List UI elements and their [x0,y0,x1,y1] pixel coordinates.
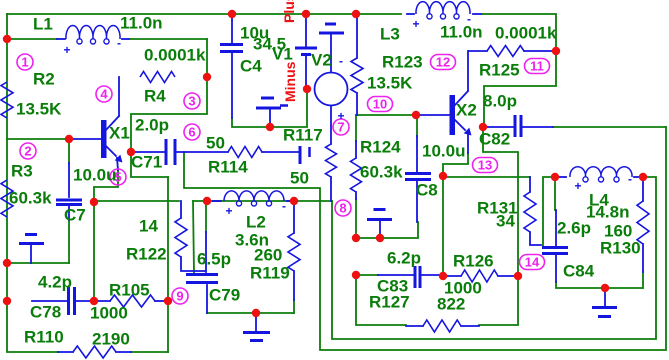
svg-text:R4: R4 [144,87,166,106]
svg-text:R124: R124 [360,138,401,157]
svg-text:L3: L3 [380,25,400,44]
svg-text:0.0001k: 0.0001k [495,24,557,43]
svg-text:R127: R127 [369,293,410,312]
svg-text:Minus: Minus [282,61,298,102]
svg-text:260: 260 [254,246,282,265]
svg-text:10.0u: 10.0u [73,166,116,185]
svg-text:4: 4 [100,87,108,102]
svg-text:12: 12 [436,55,450,70]
svg-text:11.0n: 11.0n [440,23,483,42]
svg-text:60.3k: 60.3k [360,163,403,182]
svg-text:14.8n: 14.8n [586,203,629,222]
svg-text:R123: R123 [382,53,423,72]
svg-text:6.5p: 6.5p [197,250,231,269]
svg-text:13.5K: 13.5K [367,74,413,93]
svg-text:C84: C84 [563,262,595,281]
svg-text:R117: R117 [283,126,323,145]
svg-text:2.0p: 2.0p [135,116,169,135]
svg-text:C4: C4 [240,57,262,76]
svg-text:C7: C7 [64,206,86,225]
svg-text:1000: 1000 [90,304,128,323]
svg-text:-: - [282,199,286,213]
svg-text:V1: V1 [272,45,293,64]
svg-text:X1: X1 [109,124,130,143]
svg-text:R126: R126 [453,252,494,271]
svg-text:R2: R2 [33,70,55,89]
svg-text:6: 6 [188,125,195,140]
svg-text:2: 2 [24,144,31,159]
svg-text:-: - [628,172,632,186]
svg-text:R105: R105 [109,281,150,300]
svg-text:822: 822 [437,295,465,314]
svg-text:V2: V2 [311,51,332,70]
svg-text:2190: 2190 [92,330,130,349]
svg-text:C78: C78 [30,303,61,322]
svg-text:3: 3 [188,94,195,109]
svg-text:R110: R110 [24,328,64,347]
svg-text:-: - [467,12,471,26]
svg-text:13: 13 [478,158,492,173]
svg-text:6.2p: 6.2p [387,249,421,268]
svg-text:X2: X2 [456,101,477,120]
svg-text:11: 11 [530,59,544,74]
svg-text:C79: C79 [209,286,240,305]
svg-text:+: + [412,17,419,31]
svg-text:C71: C71 [131,153,162,172]
svg-text:R114: R114 [208,158,248,177]
svg-text:+: + [225,204,232,218]
svg-text:11.0n: 11.0n [120,14,163,33]
svg-text:C8: C8 [416,181,438,200]
svg-text:L2: L2 [246,213,266,232]
svg-text:R125: R125 [479,61,520,80]
svg-text:14: 14 [525,255,540,270]
svg-text:9: 9 [176,289,183,304]
svg-text:+: + [337,109,344,123]
svg-text:10.0u: 10.0u [422,142,465,161]
svg-text:C82: C82 [479,130,510,149]
svg-text:60.3k: 60.3k [9,189,52,208]
svg-text:14: 14 [139,217,158,236]
svg-text:R3: R3 [11,162,33,181]
svg-text:50: 50 [206,134,225,153]
svg-text:R119: R119 [250,264,290,283]
svg-text:R130: R130 [600,239,641,258]
svg-text:-: - [117,36,121,50]
svg-text:8.0p: 8.0p [483,92,517,111]
svg-text:L1: L1 [33,15,53,34]
svg-text:+: + [63,43,70,57]
svg-text:34: 34 [496,212,515,231]
svg-text:+: + [574,179,581,193]
svg-text:4.2p: 4.2p [38,273,72,292]
svg-text:50: 50 [290,169,309,188]
svg-text:0.0001k: 0.0001k [144,46,206,65]
svg-text:Plus: Plus [281,0,297,23]
svg-text:8: 8 [339,201,346,216]
svg-text:1: 1 [21,55,28,70]
svg-text:10: 10 [373,97,387,112]
svg-text:R122: R122 [126,245,167,264]
svg-text:-: - [339,54,343,68]
svg-text:13.5K: 13.5K [16,100,62,119]
